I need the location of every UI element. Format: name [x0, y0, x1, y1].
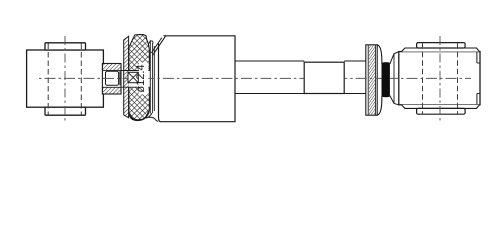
collar bottom slant [390, 96, 399, 105]
right eye top cap [417, 43, 466, 48]
right eye hidden line left [422, 43, 424, 114]
left eye hidden line right [80, 44, 82, 115]
end cap neck top curve [377, 45, 382, 64]
boot right rolled edge [149, 42, 151, 114]
rod diameter dimension text "ø12.4" (rotated) [136, 65, 144, 93]
right eye vertical centerline [439, 36, 441, 121]
bump stop thick bottom rim [130, 111, 149, 120]
dust tube crimp outer slant [153, 36, 166, 55]
horizontal centerline middle segment [148, 77, 304, 79]
reserve tube top line right [344, 60, 366, 62]
right eye top band [402, 48, 480, 52]
rod section box with X [128, 72, 138, 82]
collar top slant [390, 52, 399, 64]
reserve tube top line left [235, 60, 304, 62]
end cap body [366, 45, 377, 115]
horizontal centerline left segment [39, 77, 128, 79]
end cap neck bottom curve [377, 96, 382, 115]
left eye top flange [45, 43, 86, 50]
end cap inner wall [367, 45, 369, 115]
nut bottom hatched band [102, 87, 121, 94]
horizontal centerline right segment [344, 77, 381, 79]
right eye bottom band [402, 105, 480, 109]
dust tube crimp inner slant [151, 38, 162, 53]
left eye bottom flange [45, 107, 86, 115]
dust tube outline [159, 36, 236, 122]
nut top hatched band [102, 64, 121, 71]
collar wall [393, 54, 395, 104]
retaining nut outer body [102, 64, 121, 95]
bump stop right nub [148, 41, 153, 44]
nut bore right wall [119, 71, 121, 85]
reserve tube bottom line left [235, 93, 304, 95]
rod dimension text strip [139, 63, 149, 95]
left eye bushing body [27, 50, 104, 107]
rod end inside nut [106, 71, 119, 85]
bump stop cross-hatched body [129, 35, 150, 121]
right eye hidden line right [457, 43, 459, 114]
right eye inner ring line [476, 52, 478, 63]
right eye body [399, 52, 480, 105]
rubber isolator black band [382, 62, 390, 97]
boot bottom lip [146, 113, 152, 118]
boot left hatched column [124, 36, 129, 118]
end cap ribbed band right wall [374, 45, 376, 115]
horizontal centerline far right segment [390, 77, 471, 79]
right eye bottom cap [417, 108, 466, 114]
piston rod behind boot [128, 71, 150, 88]
product label rectangle on reserve tube [304, 62, 344, 93]
left eye vertical centerline [64, 36, 66, 122]
left eye hidden line left [47, 44, 49, 115]
reserve tube bottom line right [344, 93, 366, 95]
end cap ribbed band [369, 45, 375, 115]
